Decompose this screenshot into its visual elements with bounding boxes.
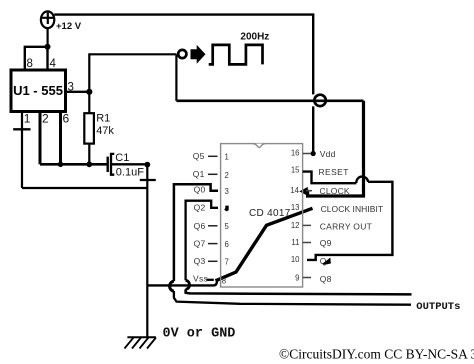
svg-text:Q9: Q9 — [320, 238, 332, 248]
wire Q0 output to lower output line — [174, 184, 218, 281]
wire pin 2 down — [39, 112, 42, 165]
svg-text:14: 14 — [290, 186, 299, 195]
wire clock vertical and into pin 14 — [305, 101, 364, 196]
Vss stub hook — [206, 279, 214, 281]
left pin stub Q1 — [208, 173, 218, 175]
node pin3/R1 junction — [86, 89, 92, 95]
svg-text:Q0: Q0 — [194, 184, 206, 194]
svg-text:OUTPUTs: OUTPUTs — [416, 301, 460, 313]
svg-text:3: 3 — [68, 81, 74, 93]
node pin6 junction — [58, 162, 63, 167]
svg-text:CARRY OUT: CARRY OUT — [320, 221, 372, 231]
svg-text:+12 V: +12 V — [56, 21, 82, 32]
svg-text:Q8: Q8 — [320, 274, 332, 284]
wire junction to pin 8 of 555 — [25, 47, 48, 69]
svg-text:13: 13 — [291, 203, 300, 212]
ground symbol — [127, 336, 155, 338]
svg-text:Q7: Q7 — [194, 238, 206, 248]
node C1 junction — [144, 162, 150, 168]
annotation arrow — [191, 45, 206, 64]
resistor R1 body — [84, 113, 94, 143]
right pin stub CARRY OUT — [303, 224, 311, 226]
left pin stub Q3 — [208, 260, 218, 262]
svg-text:CD 4017: CD 4017 — [249, 208, 291, 219]
wire ground vertical with tick — [146, 165, 148, 338]
resistor R1 leads — [88, 92, 90, 165]
svg-text:6: 6 — [63, 111, 70, 125]
wire RESET pin 15 to Q4 feedback with hop — [303, 172, 393, 260]
svg-text:RESET: RESET — [319, 167, 349, 177]
svg-text:CLOCK INHIBIT: CLOCK INHIBIT — [321, 204, 384, 214]
IC CD4017 body — [221, 144, 303, 287]
wire supply down to junction — [46, 28, 48, 47]
op timer U1 555 body — [11, 70, 66, 112]
wire C1 to node — [112, 163, 147, 165]
svg-text:10: 10 — [291, 255, 300, 264]
svg-text:Vdd: Vdd — [320, 149, 336, 159]
svg-text:8: 8 — [222, 277, 226, 286]
annotation square wave — [209, 45, 263, 65]
node junction top — [45, 44, 51, 50]
wire top rail from supply to Vdd vertical — [54, 15, 313, 154]
svg-text:5: 5 — [225, 222, 230, 231]
wire 555 output to clock, hop over +12V line — [176, 100, 363, 103]
wire Vss to clock inhibit pin 13 — [216, 208, 313, 280]
Q4 blob mark — [322, 258, 331, 265]
pin 4 blob — [224, 206, 229, 212]
left pin stub Q6 — [208, 225, 218, 227]
left pin stub Q5 — [208, 155, 218, 157]
svg-text:200Hz: 200Hz — [240, 31, 269, 42]
arrowhead at CLOCK pin 14 — [299, 187, 308, 196]
svg-text:9: 9 — [295, 274, 299, 283]
svg-text:1: 1 — [24, 111, 31, 125]
svg-text:8: 8 — [27, 58, 33, 70]
wire pin1 rail to ground line — [22, 187, 147, 189]
svg-text:C1: C1 — [115, 152, 129, 164]
svg-text:0V or GND: 0V or GND — [163, 327, 236, 342]
capacitor C1 right bracket plate — [111, 154, 114, 175]
svg-text:Q1: Q1 — [193, 169, 205, 179]
pin 3 wire to node — [66, 91, 90, 93]
svg-text:R1: R1 — [96, 113, 110, 125]
svg-text:CLOCK: CLOCK — [320, 186, 350, 196]
svg-text:16: 16 — [291, 148, 300, 157]
wire pin 1 down with tick — [21, 112, 23, 189]
wire pin3 node up and right to output ring — [89, 54, 176, 92]
svg-text:15: 15 — [291, 166, 300, 175]
wire Q2 output to upper output line — [186, 201, 218, 281]
right pin stub Vdd — [303, 153, 311, 155]
node Vdd junction dot — [311, 151, 316, 156]
wire pins 2-6 rail to C1 — [40, 163, 107, 166]
ground rail to Vss with hops — [147, 281, 217, 285]
supply +12V symbol — [41, 11, 54, 28]
svg-text:47k: 47k — [96, 125, 114, 137]
svg-text:1: 1 — [225, 152, 229, 161]
IC notch — [253, 144, 266, 148]
wire ring down to clock feed line — [175, 54, 177, 101]
svg-text:11: 11 — [291, 238, 299, 247]
svg-text:U1 - 555: U1 - 555 — [13, 83, 63, 98]
wire pin 6 down — [59, 112, 62, 165]
svg-text:0.1uF: 0.1uF — [116, 167, 144, 179]
capacitor C1 left plate — [106, 157, 108, 172]
svg-text:2: 2 — [225, 171, 229, 180]
svg-text:Vss: Vss — [193, 274, 208, 284]
svg-text:Q5: Q5 — [193, 151, 205, 161]
svg-text:4: 4 — [50, 58, 57, 70]
svg-text:2: 2 — [42, 111, 49, 125]
output terminal ring — [178, 50, 186, 58]
right pin stub Q9 — [303, 242, 311, 244]
svg-text:Q3: Q3 — [194, 256, 206, 266]
svg-text:Q6: Q6 — [194, 221, 206, 231]
right pin stub Q8 — [303, 277, 311, 279]
svg-text:Q2: Q2 — [194, 202, 206, 212]
svg-text:©CircuitsDIY.com CC BY-NC-SA 3: ©CircuitsDIY.com CC BY-NC-SA 3.0 — [279, 347, 474, 362]
svg-text:3: 3 — [225, 187, 229, 196]
left pin stub Q7 — [208, 243, 218, 245]
svg-text:6: 6 — [225, 240, 229, 249]
node R1 bottom junction — [86, 161, 92, 167]
wire junction to pin 4 of 555 — [46, 47, 48, 69]
svg-text:7: 7 — [225, 257, 229, 266]
right pin stub CLOCK — [306, 190, 312, 192]
svg-text:12: 12 — [291, 221, 300, 230]
